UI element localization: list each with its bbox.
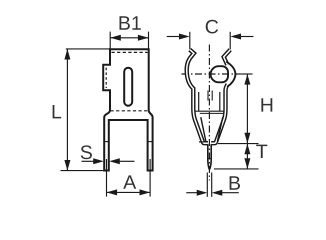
label L [53,105,62,118]
clip right arm outer swing [226,62,235,87]
dimension T extension line top [218,143,259,145]
dimension C arrow right [241,36,254,38]
pin top hidden edge right [211,91,213,101]
dimension B arrow left [186,192,197,194]
dimension B1 extension line right [148,32,150,49]
dimension B extension line left [206,173,208,197]
clip right arm upper [224,50,231,65]
hidden edge dashed base [111,110,149,112]
dimension T arrow top [244,144,250,155]
dimension B1 arrow right [138,35,149,41]
dimension B extension line right [211,173,213,197]
cup inner bottom line 1 [196,110,224,112]
label C [206,20,218,34]
leg bend tick left [104,141,109,143]
cup inner fold right [219,92,221,111]
dimension L arrow bottom [64,160,70,171]
dimension C extension line right [229,32,231,50]
slot (oblong hole) [124,68,132,106]
cup inner fold left [198,92,200,111]
dimension H extension line top [239,73,253,75]
dimension L extension line top [66,48,110,50]
pin shoulder inner line left [199,141,208,143]
solder pin [208,144,211,169]
dimension L line [66,49,68,171]
clip right arm lower [211,84,227,143]
dimension C extension line left [189,32,191,50]
dimension L extension line bottom [61,170,105,172]
dimension S arrow left [82,160,95,162]
dimension T extension line bottom [214,168,259,170]
dimension A extension line left [106,159,108,197]
dimension H arrow top [244,74,250,85]
pin top hidden edge left [207,91,209,101]
dimension T arrow bottom [244,158,250,169]
dimension T line [246,144,248,169]
label H [261,98,272,111]
dimension H line [246,74,248,143]
dimension L arrow top [64,49,70,60]
fuse boss capsule [211,66,228,82]
dimension B1 extension line left [109,32,111,49]
dimension H arrow bottom [244,133,250,144]
dimension A extension line right [149,159,151,197]
centerline horizontal [182,73,239,75]
cup inner bottom line 2 [200,112,224,114]
dimension B1 arrow left [110,35,121,41]
hidden bend dashed tab [105,68,107,88]
label T [256,145,267,158]
dimension A arrow left [107,189,118,195]
label A [123,175,136,188]
label S [81,145,92,159]
funnel inner diagonal left [201,117,206,141]
dimension C arrow left [167,36,180,38]
dimension S arrow right [120,160,135,162]
dimension B arrow right [222,192,239,194]
funnel inner diagonal right [217,117,222,141]
dimension B1 line [110,37,148,39]
body outline left view [103,49,152,170]
centerline vertical [208,45,210,181]
clip left arm [187,50,208,144]
label B1 [120,16,141,29]
hidden edge dashed top [112,51,148,53]
dimension A line [107,191,151,193]
label B [230,176,240,189]
leg bend tick right [148,141,153,143]
dimension A arrow right [140,189,151,195]
pin taper tick [208,158,211,160]
